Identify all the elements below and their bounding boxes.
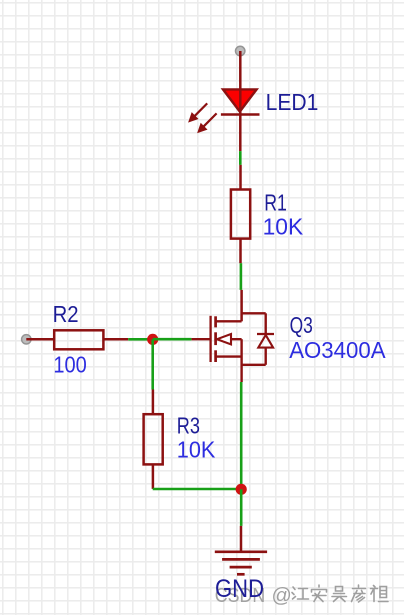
wire net segment LED to R1 (green) bbox=[239, 151, 242, 165]
svg-text:Q3: Q3 bbox=[290, 312, 313, 338]
resistor R1 bottom pin bbox=[239, 239, 242, 264]
transistor Q3 drain pin bbox=[240, 290, 243, 321]
resistor R2 body bbox=[54, 330, 103, 349]
svg-text:100: 100 bbox=[53, 351, 86, 377]
char jiang bbox=[292, 587, 309, 599]
wire node A down to R3 (green) bbox=[151, 339, 154, 389]
watermark chinese characters bbox=[292, 585, 388, 602]
LED1 cathode bar bbox=[221, 113, 260, 116]
wire pin stub P2 to R2 bbox=[26, 338, 54, 341]
svg-text:@: @ bbox=[272, 585, 292, 607]
wire R2 to node A (green) bbox=[128, 338, 153, 341]
wire net segment R1 to Q3 drain (green) bbox=[240, 263, 243, 290]
svg-text:R3: R3 bbox=[177, 413, 200, 439]
resistor R2 right pin bbox=[103, 338, 128, 341]
char yan bbox=[352, 585, 366, 602]
wire node B to GND (green) bbox=[240, 489, 243, 526]
ground GND pin bbox=[240, 526, 243, 552]
resistor R1 body bbox=[231, 190, 250, 239]
LED1 emission arrow 1 bbox=[189, 103, 207, 121]
svg-text:R1: R1 bbox=[264, 189, 287, 215]
wire LED1 cathode pin down bbox=[239, 115, 242, 152]
svg-text:LED1: LED1 bbox=[266, 89, 319, 115]
wire R3 to node B (green horizontal) bbox=[153, 488, 242, 491]
char zu bbox=[371, 586, 389, 602]
resistor R3 body bbox=[144, 414, 163, 464]
LED D1 body (LED1) bbox=[223, 89, 257, 111]
resistor R1 top pin bbox=[239, 165, 242, 190]
char wu bbox=[332, 587, 347, 602]
junction node B bbox=[236, 484, 247, 495]
svg-text:10K: 10K bbox=[263, 213, 304, 239]
wire node A to Q3 gate (green) bbox=[153, 338, 192, 341]
resistor R3 bottom pin bbox=[152, 464, 155, 489]
svg-text:AO3400A: AO3400A bbox=[289, 337, 386, 363]
junction node A bbox=[147, 334, 158, 345]
svg-text:GND: GND bbox=[215, 575, 264, 603]
transistor Q3 MOSFET symbol bbox=[191, 313, 274, 382]
char an bbox=[312, 585, 327, 602]
svg-text:R2: R2 bbox=[53, 301, 79, 327]
pin P1 (top terminal) bbox=[236, 46, 245, 55]
wire Q3 source down to node B (green) bbox=[240, 382, 243, 489]
ground symbol bars bbox=[215, 552, 267, 575]
wire pin stub P1 through LED1 bbox=[239, 51, 242, 115]
pin P2 (left terminal) bbox=[22, 335, 31, 344]
svg-text:10K: 10K bbox=[177, 437, 216, 463]
LED1 emission arrow 2 bbox=[198, 113, 217, 132]
resistor R3 top pin bbox=[152, 390, 155, 415]
